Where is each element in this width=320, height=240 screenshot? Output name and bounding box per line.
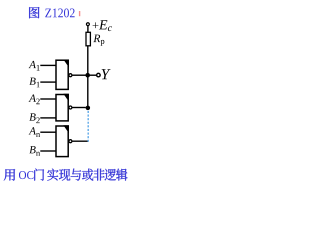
gate U3 output bubble	[69, 140, 72, 143]
title 图 Z1202	[29, 7, 74, 18]
label B2	[29, 113, 35, 120]
gate U1 output bubble	[69, 74, 72, 77]
gate U3 input wire B	[40, 150, 56, 152]
gate U3 input wire A	[40, 131, 56, 133]
wire Ec to Rp	[87, 26, 89, 33]
label A2	[29, 94, 36, 101]
cursor mark	[79, 11, 80, 16]
label Bn	[29, 146, 35, 153]
gate U1 body	[56, 60, 69, 90]
label Y	[102, 69, 111, 79]
gate U2 output wire	[72, 107, 86, 109]
resistor Rp	[86, 32, 104, 46]
gate U2 input wire A	[40, 98, 56, 100]
dashed bus continuation	[87, 111, 89, 142]
terminal Y	[97, 73, 101, 77]
gate U1 input wire A	[40, 64, 56, 66]
gate U3 output wire	[72, 140, 88, 142]
wire to Y terminal	[90, 74, 97, 76]
caption 用 OC门实现与或非逻辑	[4, 169, 128, 181]
gate U2 body	[56, 94, 69, 121]
gate U2 output bubble	[69, 106, 72, 109]
label An	[29, 127, 36, 134]
node gate2 junction	[86, 106, 91, 111]
gate U2 input wire B	[40, 117, 56, 119]
label B1	[29, 78, 35, 85]
power terminal +Ec	[86, 20, 111, 31]
gate U3 body	[56, 125, 69, 156]
gate U1 input wire B	[40, 81, 56, 83]
node Y junction	[85, 73, 90, 78]
gate U1 output wire	[72, 74, 86, 76]
wire bus vertical	[87, 46, 89, 108]
label A1	[29, 61, 36, 68]
